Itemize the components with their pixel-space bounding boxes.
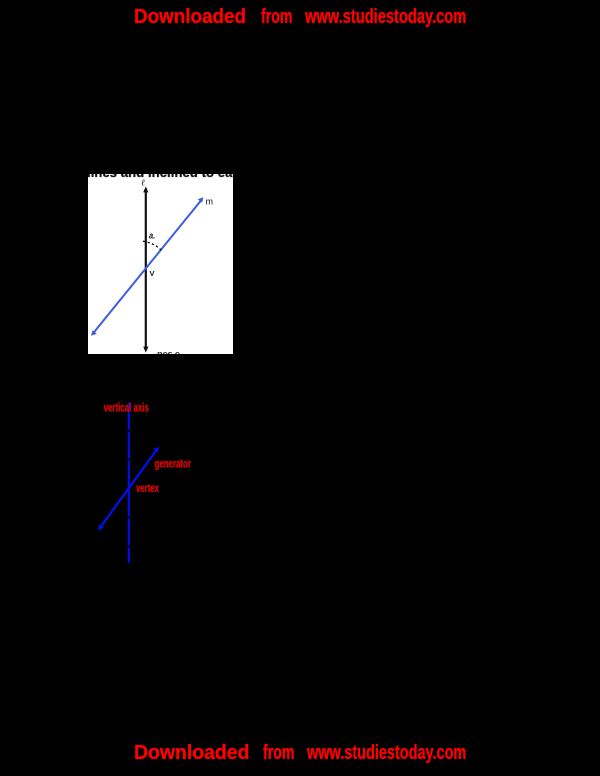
bottom banner text xyxy=(134,743,249,763)
line l (vertical black line with arrows) xyxy=(143,186,148,352)
top banner text xyxy=(134,7,246,27)
svg-text:generator: generator xyxy=(155,456,192,470)
angle arc (dashed) xyxy=(143,241,163,252)
line m (blue diagonal with arrows) xyxy=(91,197,203,335)
generator line (blue diagonal with arrows) xyxy=(98,447,159,531)
cut-off caption text at top of white box xyxy=(87,165,237,180)
svg-text:vertex: vertex xyxy=(136,481,159,495)
svg-text:vertical axis: vertical axis xyxy=(104,401,150,415)
vertical axis (blue dashed line) xyxy=(128,403,130,564)
figure 1: white inset image box xyxy=(88,174,233,354)
